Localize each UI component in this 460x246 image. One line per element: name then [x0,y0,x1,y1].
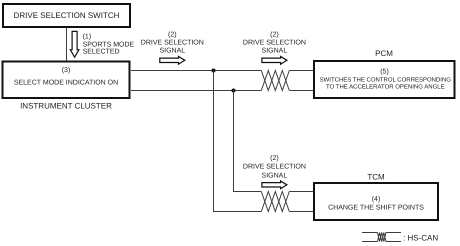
twisted pair to PCM [261,71,289,91]
svg-text:CHANGE THE SHIFT POINTS: CHANGE THE SHIFT POINTS [328,204,424,211]
svg-text:INSTRUMENT CLUSTER: INSTRUMENT CLUSTER [20,102,112,111]
svg-text:(3): (3) [62,66,71,74]
svg-text:PCM: PCM [375,49,393,58]
svg-text:(5): (5) [380,67,389,75]
svg-text:SIGNAL: SIGNAL [262,47,288,54]
block TCM [314,183,438,220]
wire switch to instrument cluster [66,28,68,61]
svg-text:SELECT MODE INDICATION ON: SELECT MODE INDICATION ON [14,79,118,86]
wire braid to TCM top [289,191,314,193]
legend twisted pair symbol [362,233,401,242]
svg-text:TCM: TCM [367,172,385,181]
wire node B down to TCM top [234,91,262,192]
block PCM [314,61,455,98]
svg-text:TO THE ACCELERATOR OPENING ANG: TO THE ACCELERATOR OPENING ANGLE [326,83,445,90]
label (2) drive selection signal left [141,30,204,54]
svg-text:DRIVE SELECTION SWITCH: DRIVE SELECTION SWITCH [14,11,120,20]
block DRIVE SELECTION SWITCH [3,4,130,27]
svg-text:SIGNAL: SIGNAL [159,47,185,54]
junction node A [212,69,216,73]
wire braid to PCM top [289,70,314,72]
wire braid to TCM bottom [289,211,314,213]
twisted pair to TCM [261,192,289,212]
svg-text:DRIVE SELECTION: DRIVE SELECTION [243,39,306,46]
svg-text:(2): (2) [270,154,279,162]
svg-text:SIGNAL: SIGNAL [262,172,288,179]
arrow drive selection signal lower [262,181,287,189]
svg-text:SELECTED: SELECTED [83,49,120,56]
arrow (1) sports mode selected [70,31,79,57]
block SELECT MODE INDICATION ON (instrument cluster) [3,62,130,99]
svg-text:(1): (1) [83,33,92,41]
wire braid to PCM bottom [289,90,314,92]
wire node A down to TCM bottom [214,71,262,212]
svg-text:DRIVE SELECTION: DRIVE SELECTION [243,163,306,170]
label (2) drive selection signal lower [243,154,306,179]
svg-text:DRIVE SELECTION: DRIVE SELECTION [141,39,204,46]
svg-text:(2): (2) [168,30,177,38]
arrow drive selection signal left [160,57,185,65]
label (1) SPORTS MODE SELECTED [83,33,135,56]
wire bottom (cluster to PCM braid) [131,90,261,92]
svg-text:: HS-CAN: : HS-CAN [403,234,438,243]
arrow drive selection signal middle [262,57,287,65]
label (2) drive selection signal middle [243,30,306,54]
svg-text:SWITCHES THE CONTROL CORRESPON: SWITCHES THE CONTROL CORRESPONDING [320,76,452,83]
svg-text:(2): (2) [270,30,279,38]
wire top (cluster to PCM braid) [131,70,261,72]
junction node B [232,89,236,93]
svg-text:(4): (4) [372,195,381,203]
